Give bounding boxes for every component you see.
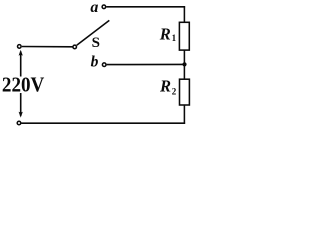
voltage arrow shaft (lower segment): [20, 93, 22, 116]
voltage arrow shaft (upper segment): [20, 52, 22, 77]
wire (top-right corner down to R1): [183, 6, 185, 23]
svg-text:S: S: [92, 35, 100, 51]
resistor R2: [180, 79, 190, 105]
svg-text:220V: 220V: [2, 74, 45, 97]
switch S blade (open, toward node a): [77, 20, 110, 45]
voltage arrow head (down, at bottom terminal): [19, 112, 23, 118]
svg-text:1: 1: [172, 33, 177, 43]
label R2: [159, 76, 177, 96]
wire (top-left terminal to switch pivot): [22, 46, 73, 48]
wire (bottom rail, right corner to bottom-left terminal): [21, 122, 185, 124]
voltage arrow head (up, at top terminal): [19, 50, 23, 56]
resistor R1: [179, 22, 189, 50]
wire (R1 bottom to junction b): [183, 50, 185, 79]
svg-text:b: b: [91, 54, 99, 71]
svg-text:2: 2: [172, 86, 177, 96]
terminal (bottom-left supply, - side): [17, 121, 21, 125]
junction (node b on right rail): [182, 62, 186, 66]
svg-text:R: R: [159, 76, 171, 95]
wire (node a to top-right corner): [106, 6, 185, 8]
wire (terminal b to junction on right rail): [107, 63, 183, 65]
wire (R2 bottom to bottom-right corner): [183, 105, 185, 124]
terminal (top-left supply, + side): [18, 45, 22, 49]
svg-text:a: a: [90, 0, 98, 16]
switch S pivot terminal: [73, 45, 77, 49]
label R1: [159, 25, 177, 44]
terminal b: [102, 63, 106, 67]
terminal a: [102, 5, 106, 9]
svg-text:R: R: [159, 25, 171, 44]
